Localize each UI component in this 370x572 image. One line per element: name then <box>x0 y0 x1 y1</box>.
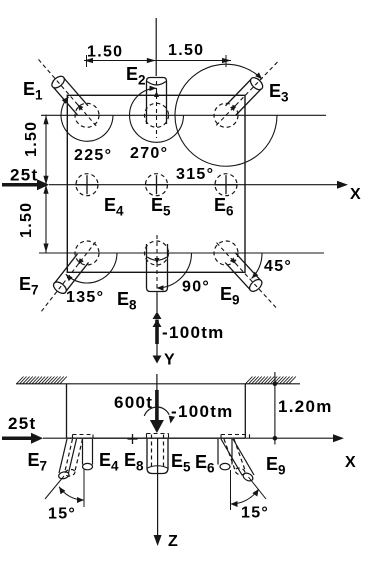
svg-text:315°: 315° <box>176 166 214 183</box>
svg-text:15°: 15° <box>48 506 76 523</box>
svg-text:1.50: 1.50 <box>18 202 35 238</box>
svg-text:-100tm: -100tm <box>162 323 225 342</box>
svg-text:1.50: 1.50 <box>87 44 123 61</box>
svg-text:270°: 270° <box>130 145 168 162</box>
svg-text:-100tm: -100tm <box>171 402 234 421</box>
svg-text:1.50: 1.50 <box>168 42 204 59</box>
svg-text:225°: 225° <box>74 147 112 164</box>
svg-text:Y: Y <box>164 352 176 369</box>
svg-text:90°: 90° <box>182 279 210 296</box>
svg-text:45°: 45° <box>264 258 292 275</box>
svg-text:X: X <box>345 454 357 471</box>
svg-text:600t: 600t <box>114 393 153 412</box>
svg-text:Z: Z <box>168 533 179 550</box>
svg-text:1.50: 1.50 <box>23 121 40 157</box>
svg-text:X: X <box>350 186 362 203</box>
svg-text:135°: 135° <box>66 289 104 306</box>
svg-text:15°: 15° <box>241 505 269 522</box>
svg-text:25t: 25t <box>10 166 38 185</box>
svg-text:1.20m: 1.20m <box>278 397 333 416</box>
svg-text:25t: 25t <box>8 414 36 433</box>
